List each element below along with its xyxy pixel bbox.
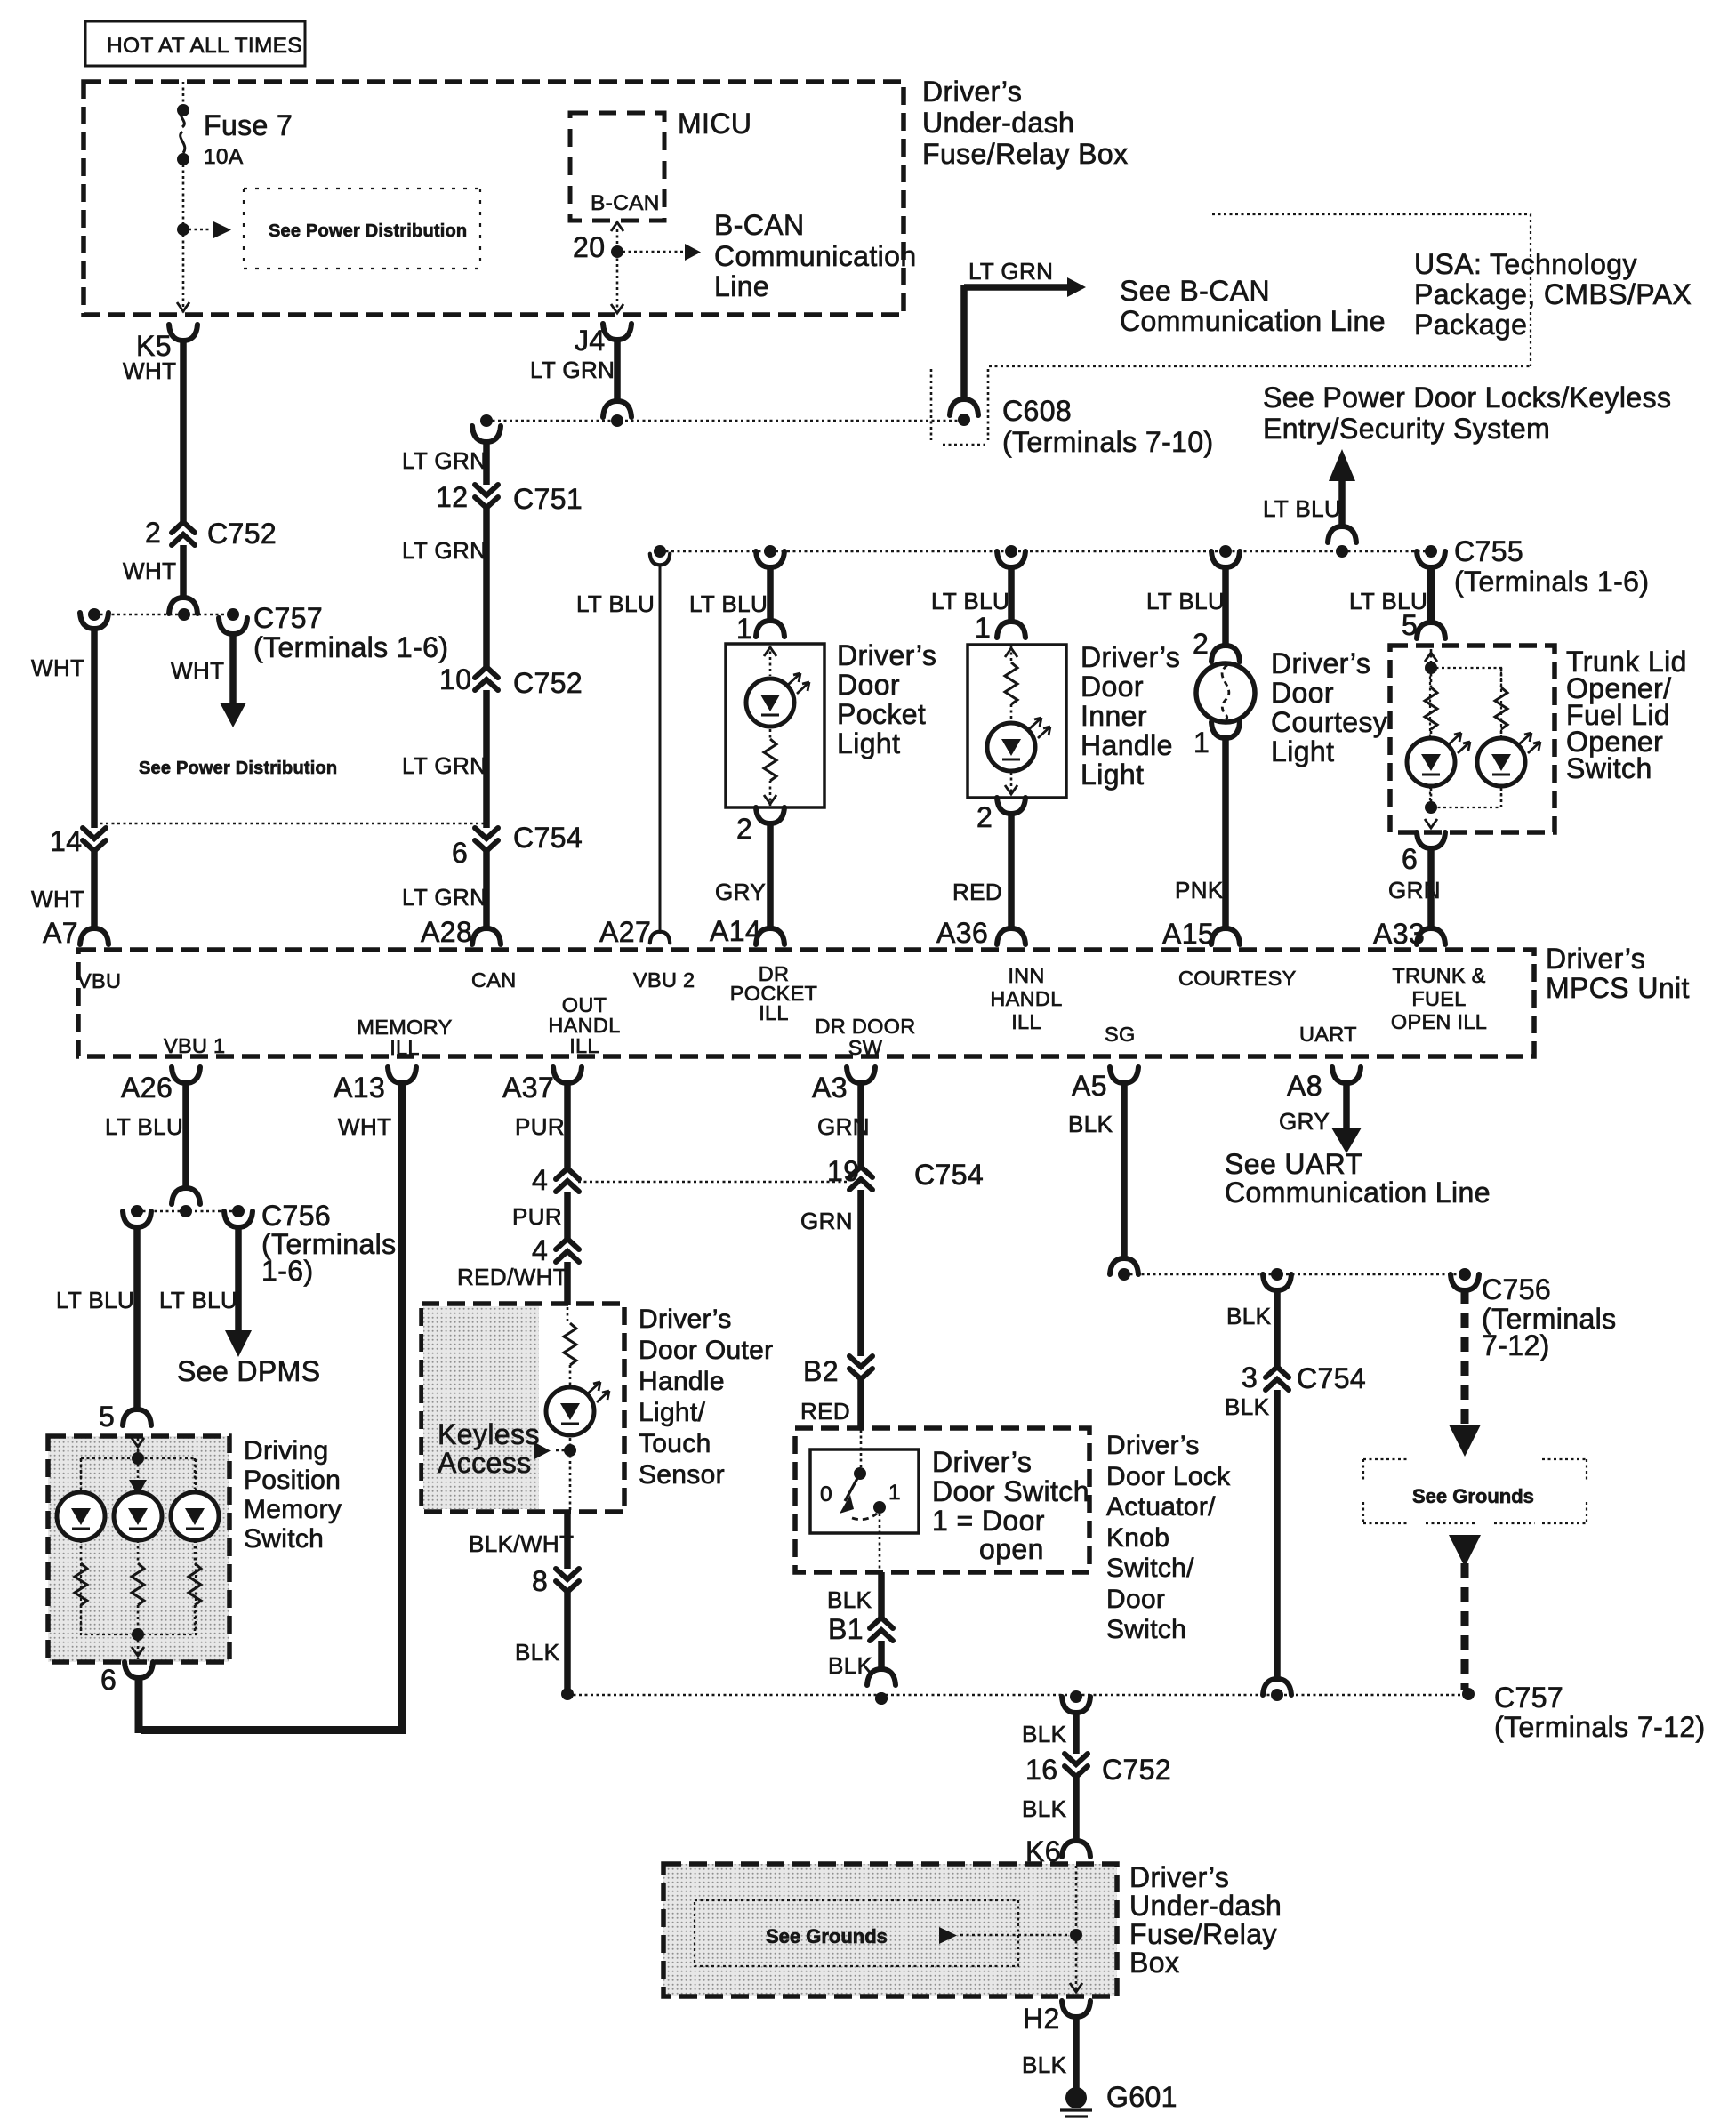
svg-text:WHT: WHT (171, 657, 224, 684)
svg-text:Driver’s: Driver’s (837, 639, 936, 671)
svg-text:LT GRN: LT GRN (402, 752, 486, 779)
svg-text:(Terminals 7-12): (Terminals 7-12) (1494, 1711, 1706, 1743)
svg-text:C752: C752 (513, 667, 583, 699)
svg-text:See Power Distribution: See Power Distribution (269, 221, 467, 241)
svg-text:12: 12 (436, 481, 468, 513)
svg-text:BLK: BLK (1022, 2052, 1067, 2078)
svg-text:LT BLU: LT BLU (931, 588, 1009, 614)
svg-text:C755: C755 (1454, 535, 1523, 567)
svg-text:C752: C752 (1102, 1754, 1171, 1786)
svg-text:16: 16 (1025, 1754, 1057, 1786)
svg-text:Driver’s: Driver’s (1271, 647, 1370, 679)
svg-text:Knob: Knob (1106, 1523, 1169, 1553)
svg-text:BLK: BLK (515, 1639, 560, 1666)
svg-text:ILL: ILL (390, 1036, 420, 1059)
svg-text:BLK: BLK (1226, 1303, 1272, 1329)
svg-text:B2: B2 (803, 1355, 839, 1387)
svg-text:SW: SW (848, 1036, 883, 1059)
svg-text:Memory: Memory (244, 1495, 342, 1524)
svg-text:See Grounds: See Grounds (766, 1925, 888, 1947)
svg-text:Door Lock: Door Lock (1106, 1462, 1231, 1491)
svg-text:K6: K6 (1025, 1835, 1061, 1867)
svg-text:RED: RED (800, 1398, 850, 1425)
svg-text:OPEN ILL: OPEN ILL (1391, 1010, 1487, 1033)
svg-text:LT GRN: LT GRN (402, 537, 486, 564)
svg-text:WHT: WHT (338, 1113, 391, 1140)
svg-text:6: 6 (452, 837, 468, 869)
svg-text:GRN: GRN (817, 1113, 870, 1140)
svg-text:DR DOOR: DR DOOR (815, 1015, 915, 1038)
svg-text:A37: A37 (502, 1072, 554, 1104)
svg-text:Driver’s: Driver’s (1106, 1431, 1200, 1460)
svg-text:LT BLU: LT BLU (105, 1113, 183, 1140)
svg-text:FUEL: FUEL (1411, 987, 1466, 1010)
svg-text:Fuse/Relay: Fuse/Relay (1129, 1918, 1277, 1950)
svg-text:A3: A3 (812, 1072, 848, 1104)
svg-text:C757: C757 (1494, 1682, 1563, 1714)
svg-text:Driver’s: Driver’s (1546, 943, 1645, 975)
svg-text:Switch: Switch (1566, 752, 1652, 784)
svg-text:Pocket: Pocket (837, 698, 926, 730)
svg-text:C754: C754 (914, 1159, 984, 1191)
svg-text:RED/WHT: RED/WHT (457, 1264, 567, 1290)
svg-text:B-CAN: B-CAN (591, 191, 660, 215)
svg-text:BLK: BLK (1225, 1393, 1270, 1420)
svg-text:WHT: WHT (123, 357, 176, 384)
svg-text:A33: A33 (1373, 918, 1425, 950)
svg-text:1: 1 (736, 613, 752, 645)
svg-text:A27: A27 (599, 916, 651, 948)
svg-text:B1: B1 (828, 1613, 864, 1645)
svg-text:19: 19 (827, 1155, 859, 1187)
svg-text:1: 1 (1193, 727, 1210, 759)
svg-text:14: 14 (50, 825, 82, 857)
svg-text:Driver’s: Driver’s (922, 76, 1022, 108)
svg-text:Handle: Handle (1081, 729, 1173, 761)
svg-text:CAN: CAN (471, 968, 517, 992)
svg-text:Handle: Handle (639, 1367, 725, 1396)
svg-text:LT GRN: LT GRN (968, 258, 1053, 285)
svg-text:Courtesy: Courtesy (1271, 706, 1387, 738)
svg-text:A13: A13 (334, 1072, 385, 1104)
svg-text:Entry/Security System: Entry/Security System (1263, 413, 1550, 445)
svg-text:1: 1 (975, 612, 991, 644)
svg-text:HANDL: HANDL (990, 987, 1062, 1010)
svg-text:WHT: WHT (31, 654, 84, 681)
svg-text:Under-dash: Under-dash (922, 107, 1074, 139)
svg-text:Light/: Light/ (639, 1398, 706, 1427)
svg-text:(Terminals 1-6): (Terminals 1-6) (1454, 566, 1649, 598)
svg-text:C754: C754 (513, 822, 583, 854)
svg-text:Communication Line: Communication Line (1225, 1176, 1491, 1209)
svg-text:VBU: VBU (77, 969, 121, 992)
svg-text:LT BLU: LT BLU (1146, 588, 1225, 614)
svg-text:Door: Door (837, 669, 900, 701)
svg-text:8: 8 (532, 1565, 548, 1597)
svg-text:Door: Door (1106, 1585, 1165, 1614)
svg-text:Door Switch: Door Switch (932, 1475, 1089, 1507)
svg-text:Under-dash: Under-dash (1129, 1890, 1282, 1922)
svg-text:GRY: GRY (715, 879, 766, 905)
svg-text:Switch: Switch (1106, 1615, 1186, 1644)
svg-text:PUR: PUR (512, 1203, 562, 1230)
svg-text:A8: A8 (1287, 1070, 1322, 1102)
svg-text:Line: Line (714, 270, 769, 302)
svg-text:GRY: GRY (1279, 1108, 1330, 1135)
svg-text:5: 5 (99, 1401, 115, 1433)
svg-text:Inner: Inner (1081, 700, 1147, 732)
svg-text:G601: G601 (1106, 2081, 1177, 2113)
svg-text:Communication Line: Communication Line (1120, 305, 1386, 337)
svg-text:4: 4 (532, 1234, 548, 1266)
svg-text:4: 4 (532, 1164, 548, 1196)
svg-text:BLK: BLK (828, 1652, 873, 1679)
svg-text:20: 20 (573, 231, 605, 263)
svg-text:TRUNK &: TRUNK & (1392, 964, 1485, 987)
svg-text:B-CAN: B-CAN (714, 209, 805, 241)
svg-text:BLK/WHT: BLK/WHT (469, 1530, 574, 1557)
svg-text:Door: Door (1081, 671, 1144, 703)
svg-text:A14: A14 (710, 915, 761, 947)
svg-text:ILL: ILL (569, 1034, 599, 1057)
svg-text:Fuse/Relay Box: Fuse/Relay Box (922, 138, 1128, 170)
svg-text:Package, CMBS/PAX: Package, CMBS/PAX (1414, 278, 1692, 310)
svg-text:MICU: MICU (678, 108, 751, 140)
svg-text:Driver’s: Driver’s (1081, 641, 1180, 673)
svg-text:BLK: BLK (1022, 1795, 1067, 1822)
svg-text:GRN: GRN (800, 1208, 853, 1234)
svg-text:C756: C756 (261, 1200, 331, 1232)
svg-text:LT BLU: LT BLU (689, 590, 768, 617)
svg-text:See Power Door Locks/Keyless: See Power Door Locks/Keyless (1263, 381, 1671, 414)
svg-text:C756: C756 (1482, 1273, 1551, 1305)
svg-text:A26: A26 (121, 1072, 173, 1104)
svg-text:6: 6 (100, 1664, 117, 1696)
svg-text:WHT: WHT (123, 558, 176, 584)
svg-text:See Power Distribution: See Power Distribution (139, 759, 337, 778)
svg-text:See UART: See UART (1225, 1148, 1363, 1180)
svg-text:See DPMS: See DPMS (177, 1355, 320, 1387)
svg-text:3: 3 (1242, 1361, 1258, 1393)
svg-text:RED: RED (952, 879, 1002, 905)
svg-text:Light: Light (1271, 735, 1334, 767)
svg-text:A15: A15 (1162, 918, 1214, 950)
svg-text:0: 0 (820, 1482, 832, 1506)
svg-text:PNK: PNK (1175, 877, 1224, 903)
svg-text:Package: Package (1414, 309, 1527, 341)
svg-text:open: open (979, 1533, 1044, 1565)
svg-text:Access: Access (438, 1447, 532, 1479)
svg-text:10A: 10A (204, 145, 244, 169)
svg-text:5: 5 (1402, 609, 1418, 641)
svg-text:2: 2 (145, 517, 161, 549)
svg-text:GRN: GRN (1388, 877, 1441, 903)
svg-text:1: 1 (888, 1481, 901, 1505)
svg-text:1-6): 1-6) (261, 1255, 314, 1287)
svg-text:Light: Light (837, 727, 900, 759)
svg-text:UART: UART (1299, 1023, 1357, 1046)
svg-text:A5: A5 (1072, 1070, 1107, 1102)
svg-text:BLK: BLK (1022, 1721, 1067, 1747)
svg-text:Position: Position (244, 1466, 341, 1495)
svg-text:Switch/: Switch/ (1106, 1554, 1194, 1583)
svg-text:HOT AT ALL TIMES: HOT AT ALL TIMES (107, 34, 302, 58)
svg-text:C608: C608 (1002, 395, 1072, 427)
svg-text:Communication: Communication (714, 240, 917, 272)
svg-text:SG: SG (1105, 1023, 1136, 1046)
svg-text:LT GRN: LT GRN (402, 447, 486, 474)
svg-text:VBU 1: VBU 1 (164, 1034, 225, 1057)
svg-text:USA: Technology: USA: Technology (1414, 248, 1637, 280)
svg-text:J4: J4 (575, 325, 606, 357)
svg-text:VBU 2: VBU 2 (633, 968, 695, 992)
svg-text:7-12): 7-12) (1482, 1329, 1550, 1361)
svg-text:LT BLU: LT BLU (56, 1287, 134, 1313)
svg-text:10: 10 (439, 663, 471, 695)
svg-text:Switch: Switch (244, 1524, 324, 1554)
svg-text:Box: Box (1129, 1947, 1179, 1979)
svg-text:ILL: ILL (759, 1001, 789, 1024)
svg-text:Driver’s: Driver’s (639, 1305, 732, 1334)
svg-text:A36: A36 (936, 917, 988, 949)
svg-text:LT GRN: LT GRN (402, 884, 486, 911)
svg-text:MPCS Unit: MPCS Unit (1546, 972, 1690, 1004)
svg-text:(Terminals 7-10): (Terminals 7-10) (1002, 426, 1214, 458)
svg-text:LT BLU: LT BLU (576, 590, 655, 617)
svg-text:See B-CAN: See B-CAN (1120, 275, 1270, 307)
svg-text:Light: Light (1081, 759, 1144, 791)
svg-text:C754: C754 (1297, 1362, 1366, 1394)
svg-text:2: 2 (1193, 628, 1209, 660)
svg-text:2: 2 (736, 813, 752, 845)
svg-text:ILL: ILL (1011, 1010, 1041, 1033)
svg-text:Door: Door (1271, 677, 1334, 709)
svg-text:LT BLU: LT BLU (1263, 495, 1341, 522)
svg-text:Keyless: Keyless (438, 1418, 540, 1450)
svg-text:BLK: BLK (827, 1586, 872, 1613)
svg-text:LT BLU: LT BLU (159, 1287, 237, 1313)
svg-text:C752: C752 (207, 518, 277, 550)
svg-text:WHT: WHT (31, 886, 84, 912)
svg-text:Fuse 7: Fuse 7 (204, 109, 293, 141)
svg-text:PUR: PUR (515, 1113, 565, 1140)
svg-text:Driver’s: Driver’s (932, 1446, 1032, 1478)
svg-text:BLK: BLK (1068, 1111, 1113, 1137)
svg-text:(Terminals 1-6): (Terminals 1-6) (253, 631, 448, 663)
svg-text:Actuator/: Actuator/ (1106, 1492, 1216, 1522)
svg-text:INN: INN (1008, 964, 1044, 987)
svg-text:Door Outer: Door Outer (639, 1336, 773, 1365)
svg-text:1 = Door: 1 = Door (932, 1505, 1045, 1537)
svg-text:See Grounds: See Grounds (1412, 1485, 1534, 1507)
svg-text:A7: A7 (43, 917, 78, 949)
svg-text:Touch: Touch (639, 1429, 711, 1458)
svg-text:Driving: Driving (244, 1436, 328, 1466)
svg-text:C751: C751 (513, 483, 583, 515)
svg-text:LT GRN: LT GRN (530, 357, 615, 383)
svg-text:H2: H2 (1023, 2003, 1060, 2035)
svg-text:COURTESY: COURTESY (1178, 967, 1297, 990)
svg-text:A28: A28 (421, 916, 472, 948)
svg-text:C757: C757 (253, 602, 323, 634)
svg-text:2: 2 (976, 801, 993, 833)
svg-text:Sensor: Sensor (639, 1460, 725, 1490)
svg-text:Driver’s: Driver’s (1129, 1861, 1229, 1893)
svg-text:6: 6 (1402, 843, 1418, 875)
